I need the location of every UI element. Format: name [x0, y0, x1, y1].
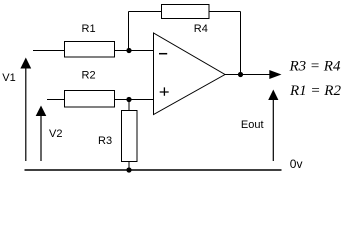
- op-amp U1 triangle: [154, 33, 226, 115]
- junction dot at R3 / 0v rail: [126, 167, 131, 172]
- wire: V1 input lead to R1: [33, 50, 65, 52]
- wire: R1 right lead to op-amp inverting input: [115, 50, 154, 52]
- Eout arrow: [272, 98, 274, 161]
- svg-text:R1: R1: [82, 23, 96, 35]
- op-amp inverting input minus sign: [159, 53, 167, 55]
- wire: feedback vertical from top wire down to output junction: [240, 12, 242, 75]
- svg-text:R1 = R2: R1 = R2: [289, 83, 341, 99]
- junction dot at output node: [238, 72, 243, 77]
- wire: R3 bottom lead to 0v rail: [128, 162, 130, 171]
- V1 source arrow: [25, 66, 27, 161]
- op-amp non-inverting input plus sign: [160, 87, 169, 95]
- svg-text:R2: R2: [82, 70, 96, 82]
- V2 source arrow: [40, 114, 42, 161]
- svg-text:R3: R3: [98, 135, 112, 147]
- wire: R3 top lead from + input junction: [128, 100, 130, 111]
- resistor R1: [65, 42, 115, 58]
- svg-text:0v: 0v: [290, 157, 303, 171]
- svg-text:R4: R4: [194, 23, 208, 35]
- ground rail 0v: [25, 169, 282, 171]
- wire: R2 right lead to op-amp non-inverting input: [115, 99, 154, 101]
- resistor R4: [162, 5, 210, 19]
- resistor R3: [122, 111, 138, 162]
- wire: feedback branch vertical from top wire down to R1 junction: [128, 12, 130, 51]
- wire: top wire right segment from R4: [209, 11, 241, 13]
- wire: op-amp output to arrow: [225, 74, 270, 76]
- resistor R2: [65, 91, 115, 108]
- svg-text:R3 = R4: R3 = R4: [289, 59, 341, 75]
- svg-text:V2: V2: [49, 128, 62, 140]
- junction dot at R1 / feedback node: [126, 48, 131, 53]
- junction dot at R2 / R3 node: [126, 97, 131, 102]
- wire: top wire left segment to R4: [129, 11, 162, 13]
- svg-text:Eout: Eout: [241, 119, 264, 131]
- svg-text:V1: V1: [2, 72, 15, 84]
- wire: V2 input lead to R2: [47, 99, 65, 101]
- output arrowhead: [269, 70, 281, 79]
